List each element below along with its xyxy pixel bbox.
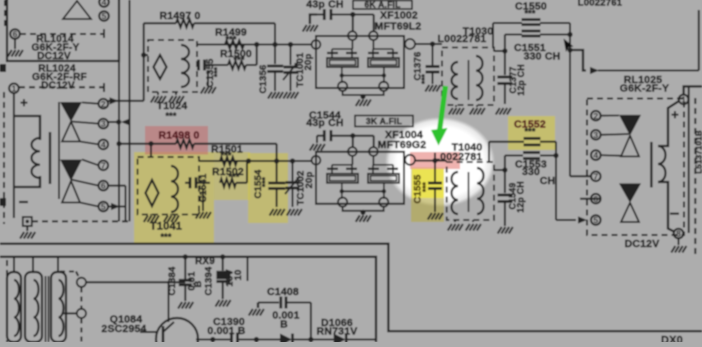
resistor R1501 [220, 157, 237, 165]
capacitor C1376 [426, 44, 440, 84]
transformer winding B (bottom left) [25, 272, 42, 342]
wire: emitter line to rail [196, 337, 230, 342]
relay RL1014 contact bowtie [63, 1, 91, 19]
wire: vertical bus x129.5 [129, 0, 131, 221]
transformer T1040 left winding [452, 172, 459, 214]
wire: pin7 to bowtie2 [82, 160, 99, 166]
transformer T1024 right winding [181, 45, 189, 87]
connector circle J1 [77, 278, 86, 287]
ground under T1024 a [151, 92, 166, 103]
label R1502 [212, 166, 244, 182]
relay RL1024 pin 5 [99, 202, 109, 212]
wire: riser into T1041 [150, 144, 152, 157]
relay RL1025 pin 8 [674, 229, 684, 239]
wire: pin5 feed arrow [556, 216, 587, 223]
ground under T1041 a [144, 214, 159, 222]
wire: J2 stub [63, 312, 77, 314]
svg-text:***: *** [233, 55, 244, 65]
transformer T1030 left winding [451, 62, 458, 99]
plus sign RL1025 [671, 107, 679, 122]
ground under C1555 [428, 213, 443, 220]
svg-text:7: 7 [101, 160, 106, 170]
svg-text:+: + [20, 95, 28, 110]
relay RL1014 label [31, 34, 79, 62]
svg-text:6K A.FIL: 6K A.FIL [364, 0, 400, 9]
transistor Q1084 [140, 281, 198, 347]
ground under T1040 a [448, 220, 463, 231]
wire: XF1002 out [415, 41, 443, 46]
label R1498 [158, 129, 199, 141]
highlight: yellow patch R1501/R1502 area [214, 152, 250, 200]
highlight: pink patch T1040 label [410, 152, 460, 169]
relay RL1014 pin 5 [99, 11, 109, 21]
resistor R1497 [144, 19, 275, 27]
capacitor C1390 [232, 333, 281, 347]
svg-text:3: 3 [101, 119, 106, 129]
wire: vertical x556 to pin5 [555, 142, 557, 220]
capacitor C1541 [185, 177, 210, 188]
svg-text:G6K-2F-Y: G6K-2F-Y [620, 83, 669, 95]
resistor R1500 [210, 61, 257, 69]
wire: y23 run [493, 22, 570, 24]
transformer T1024 left winding [154, 55, 167, 79]
capacitor C1552 [489, 138, 556, 145]
svg-text:DC12V: DC12V [625, 238, 660, 250]
ground under C1541 [196, 188, 211, 219]
svg-text:C1408: C1408 [267, 286, 299, 298]
wire: T1024 tap [141, 52, 148, 57]
highlight: yellow patch C1555 [411, 167, 444, 222]
svg-text:43p CH: 43p CH [306, 0, 343, 11]
capacitor 43p CH (upper) [316, 9, 353, 20]
wire: y34.5 run [505, 32, 573, 37]
svg-text:RX9: RX9 [195, 256, 215, 267]
mouse cursor mark [564, 39, 574, 53]
svg-text:B: B [193, 280, 204, 287]
relay RL1024 pin 3 [99, 119, 109, 129]
relay RL1025 pin 5 [591, 215, 601, 225]
svg-text:8: 8 [676, 229, 681, 239]
wire: coil top to pin1 [658, 101, 679, 146]
wire: pin5 to bowtie2 base [80, 203, 99, 207]
relay RL1025 shield box [587, 99, 684, 236]
relay RL1024 pin 4 [99, 139, 109, 149]
capacitor C1408 [258, 297, 311, 340]
svg-text:***: *** [261, 176, 270, 187]
highlight: white glow ellipse [385, 117, 495, 207]
ground under TC1001 [283, 92, 298, 99]
wire: pin3 junction [108, 118, 130, 125]
label R1501 [211, 144, 243, 161]
dashed border bottom left [6, 260, 8, 342]
label TC1001 [295, 52, 314, 88]
ground C1408 [249, 309, 264, 316]
wire: right border solid [688, 86, 690, 233]
wire: lower bus y161 [199, 160, 312, 162]
label DC12V [625, 238, 660, 250]
svg-text:5: 5 [102, 11, 107, 21]
wire: pin6 to bowtie2 apex [71, 180, 99, 186]
relay RL1025 pin 3 [591, 130, 601, 140]
capacitor C1550 [522, 20, 541, 25]
relay RL1025 pin 7 [591, 171, 601, 181]
label T1024 [157, 100, 188, 121]
wire: vertical bus x119 [118, 61, 120, 221]
label C1553 [515, 159, 555, 188]
label DX0 [661, 335, 683, 347]
relay RL1025 contact bowtie 1 [619, 115, 641, 156]
relay RL1024 pin 1 [9, 83, 19, 93]
diode D1066 [334, 334, 376, 346]
label T1040 part no [434, 151, 483, 163]
svg-text:***: *** [422, 181, 431, 192]
wire: T1040 out [494, 167, 508, 172]
highlight: yellow patch C1554/TC1002 area [248, 153, 288, 223]
label C1356 [258, 65, 269, 94]
ground under T1030 a [449, 105, 464, 115]
capacitor C1355 [197, 60, 210, 71]
connector stub left edge A [0, 64, 6, 72]
label T1040 [452, 142, 483, 154]
label D1066 [317, 317, 358, 338]
label R1499 [215, 27, 247, 45]
wire: bowtie common bar [58, 102, 60, 199]
label T1030 part no [438, 33, 487, 45]
wire: riser x489 into T1040 [488, 142, 490, 162]
wire: coil top [15, 116, 40, 140]
wire: dashed bottom run [32, 220, 130, 222]
wire: riser x504.9 [494, 35, 508, 76]
wire: riser x493 [492, 23, 494, 48]
label C1544 [306, 110, 343, 129]
label C1541 [198, 173, 209, 203]
highlight: red patch R1498 [145, 126, 208, 155]
svg-text:4: 4 [102, 0, 107, 7]
label TC1002 [296, 171, 316, 206]
dashed right border [694, 98, 696, 258]
label C1355 [205, 58, 222, 88]
wire: 43p to filter terminals [350, 12, 374, 32]
label R1497 [159, 10, 200, 22]
relay RL1025 contact bowtie 2 [619, 183, 641, 222]
transformer winding C (bottom left) [51, 272, 66, 342]
svg-text:MFT69G2: MFT69G2 [378, 139, 427, 151]
label C1377 [508, 64, 526, 96]
label 3K A.FIL box [355, 116, 413, 127]
wire: stub x247.5 [247, 258, 249, 281]
wire: riser x504.9 up [504, 156, 506, 171]
capacitor C1555 [428, 161, 442, 212]
transformer T1040 right winding [469, 168, 484, 214]
svg-text:2: 2 [593, 111, 598, 121]
label R1500 [220, 48, 252, 65]
relay RL1024 contact bowtie 1 [60, 102, 82, 142]
label MFT69L2 [375, 21, 422, 33]
ground under RL1014 pin6 [8, 50, 23, 57]
svg-text:330: 330 [522, 166, 540, 178]
arrow out of pin5 [108, 203, 126, 210]
svg-text:4: 4 [101, 139, 106, 149]
label XF1004 [385, 129, 423, 141]
ground under C1355 [201, 70, 216, 94]
relay RL1025 pin 1 [679, 94, 689, 104]
relay RL1014 pin 6 [10, 29, 20, 39]
dashed border top-left [4, 0, 6, 28]
relay RL1024 label [32, 64, 87, 92]
wire: 43p left stub to ground [310, 15, 317, 25]
svg-text:***: *** [160, 232, 171, 242]
label MFT69G2 [378, 139, 427, 151]
connector stub left edge B [0, 198, 6, 206]
resistor R1498 [116, 140, 276, 148]
crystal filter XF1004 (3K) [312, 147, 415, 222]
connector circle J2 [77, 309, 86, 318]
svg-text:RN731V: RN731V [317, 326, 358, 338]
relay RL1024 pin 6 [99, 181, 109, 191]
svg-text:12p CH: 12p CH [516, 64, 526, 96]
relay RL1014 enclosure box [7, 0, 119, 61]
minus sign RL1024 coil [19, 201, 28, 203]
transformer T1030 right winding [469, 56, 483, 100]
diode D1065 [280, 334, 314, 346]
svg-text:+: + [671, 107, 679, 122]
relay RL1025 coil [658, 146, 666, 182]
transformer core bottom left [46, 276, 49, 342]
svg-text:330 CH: 330 CH [524, 51, 561, 63]
wire: pin3 to bowtie1 apex [71, 122, 99, 124]
ground under T1040 b [466, 220, 481, 231]
label C1554 [253, 169, 270, 199]
wire: pin1 to right edge [684, 86, 702, 94]
plus sign RL1024 coil [20, 95, 28, 110]
capacitor C1384 [179, 254, 192, 301]
wire: J1 to C1384 [86, 281, 185, 283]
svg-text:C1394: C1394 [204, 266, 215, 296]
ground under C1549 [498, 227, 513, 234]
capacitor C1553 [505, 153, 559, 159]
capacitor C1544 [317, 130, 353, 141]
svg-text:1: 1 [12, 83, 17, 93]
ground under C1377 [496, 108, 511, 115]
svg-text:6: 6 [101, 181, 106, 191]
svg-text:L0022781: L0022781 [438, 33, 487, 45]
wire: dashed between J1 J2 [80, 288, 82, 343]
capacitor C1551 [522, 31, 541, 36]
svg-text:***: *** [228, 172, 239, 182]
svg-text:5: 5 [101, 202, 106, 212]
svg-text:DC12V: DC12V [37, 51, 71, 62]
relay RL1025 pin 6 [591, 194, 601, 204]
label C1390 [207, 316, 245, 337]
wire: pin7 link [570, 175, 591, 177]
wire: pin2 to bowtie1 [601, 115, 619, 117]
wire: dashed from pin1 [19, 83, 104, 92]
transformer T1041 left winding [146, 180, 159, 206]
svg-text:20p: 20p [303, 54, 314, 71]
wire: riser x698.8 [698, 10, 700, 71]
svg-text:12p CH: 12p CH [516, 181, 526, 213]
dashed border left [3, 92, 5, 224]
green arrow [431, 86, 448, 146]
label C1550 [515, 0, 547, 18]
svg-text:0.001 B: 0.001 B [207, 325, 245, 337]
resistor R1499 [225, 41, 244, 49]
wire: R1500 riser [254, 42, 259, 65]
label 43p CH (upper) [306, 0, 343, 11]
node symbol bottom-left (boxed dot) [23, 217, 32, 226]
transformer T1024 shield box [148, 40, 197, 92]
relay RL1025 pin 4 [591, 150, 601, 160]
label RX9 [195, 256, 215, 267]
label C1384 [167, 266, 204, 296]
ground under C1394 [216, 300, 231, 307]
relay RL1024 coil [31, 132, 50, 184]
svg-text:6: 6 [13, 29, 18, 39]
label C1408 [267, 286, 300, 331]
wire: pin6 stub [580, 198, 601, 200]
svg-text:***: *** [524, 127, 535, 137]
wire: pin6 to ground [14, 39, 16, 49]
label Q1084 [101, 314, 146, 336]
svg-text:4: 4 [593, 150, 598, 160]
svg-text:R1498 0: R1498 0 [158, 129, 199, 141]
label C1376 [413, 52, 430, 84]
label C1551 [514, 42, 560, 63]
svg-text:***: *** [421, 73, 430, 84]
label T1030 [463, 26, 494, 38]
transformer T1030 shield box [442, 48, 494, 106]
svg-text:L5137101B: L5137101B [695, 130, 702, 174]
wire: vertical bus x125.5 [125, 186, 127, 222]
wire: R1498 drop to bus [274, 144, 279, 164]
ground under C1356 [268, 92, 283, 99]
wire: XF1004 out [415, 158, 447, 163]
svg-text:***: *** [524, 9, 535, 19]
relay RL1014 pin 4 [99, 0, 109, 7]
capacitor C1394 electrolytic [216, 254, 230, 299]
transformer T1041 right winding [171, 166, 178, 212]
section boundary outer [0, 244, 702, 331]
relay RL1024 pin 7 [99, 160, 109, 170]
svg-text:***: *** [165, 111, 176, 121]
transformer T1040 shield box [447, 162, 494, 220]
ground C1544 [310, 144, 325, 151]
relay RL1024 pin 2 [99, 99, 109, 109]
svg-text:5: 5 [593, 215, 598, 225]
svg-text:43p CH: 43p CH [306, 117, 343, 129]
ground under C1384 [178, 302, 193, 309]
section boundary inner / supply rail [0, 257, 376, 342]
capacitor C1356 [267, 45, 283, 92]
svg-text:3: 3 [593, 130, 598, 140]
wire: pin1 rail down [13, 93, 15, 218]
wire: pin6 stub [108, 185, 126, 187]
wire: vertical x570 to RL1025 pin7 [567, 23, 572, 176]
svg-text:DX0: DX0 [661, 335, 683, 343]
ground under T1024 b [169, 92, 184, 103]
svg-text:B: B [280, 319, 288, 331]
ground under node [20, 226, 35, 239]
wire: feed to RL1025 [570, 50, 699, 74]
capacitor C1554 [268, 161, 285, 207]
label C1555 [413, 174, 431, 204]
ground under TC1002 [287, 209, 302, 216]
label L0022761 [578, 0, 623, 9]
ground under C1554 [270, 209, 285, 216]
highlight: yellow patch C1552 [508, 116, 555, 150]
ground under RL1025 pin8 [671, 238, 686, 252]
svg-text:20p: 20p [304, 172, 315, 189]
resistor R1502 [220, 179, 247, 187]
wire: D1066 run [311, 339, 334, 341]
wire: upper bus y44.5 [197, 44, 312, 46]
vertical part number right edge [695, 130, 702, 174]
svg-text:***: *** [220, 151, 231, 161]
svg-text:2SC2954: 2SC2954 [101, 323, 146, 335]
relay RL1025 coil core [650, 142, 652, 188]
wire: pin3 to bowtie1 apex [601, 133, 629, 136]
capacitor C1549 [498, 170, 513, 226]
ground under T1030 b [470, 105, 485, 115]
svg-text:C1356: C1356 [258, 65, 269, 94]
svg-text:R1497 0: R1497 0 [159, 10, 200, 22]
minus sign RL1025 [670, 213, 679, 215]
highlight: yellow patch T1041 area [134, 152, 214, 243]
wire: C1544 left stub to ground [316, 136, 318, 143]
crystal filter XF1002 (6K) [312, 31, 415, 106]
svg-text:DC12V: DC12V [41, 81, 75, 92]
capacitor C1377 [497, 77, 512, 104]
label C1394 [204, 266, 245, 296]
svg-text:MFT69L2: MFT69L2 [375, 21, 422, 33]
svg-text:***: *** [213, 66, 222, 77]
svg-text:1: 1 [681, 94, 686, 104]
relay RL1025 pin 2 [591, 111, 601, 121]
wire: pin4 to bowtie1 base [601, 154, 622, 157]
svg-text:7: 7 [593, 171, 598, 181]
wire: R1497 drop to bus [272, 23, 277, 47]
svg-text:3K A.FIL: 3K A.FIL [366, 116, 402, 126]
label C1552 [514, 119, 546, 137]
wire: rail stubs to windings [14, 257, 58, 272]
wire: R1502 riser [246, 158, 251, 182]
wire: dashed from pin6 [20, 29, 104, 38]
trimmer TC1002 [285, 158, 300, 207]
ground under T1041 b [164, 214, 179, 222]
svg-text:T1041: T1041 [150, 221, 182, 233]
arrow out of pin2 [108, 97, 144, 104]
transformer winding A (bottom left) [7, 272, 21, 342]
svg-text:L0022761: L0022761 [578, 0, 623, 9]
relay RL1024 contact bowtie 2 [60, 160, 82, 203]
wire: riser x143.7 (pin2 to R1497) [143, 23, 145, 101]
label 6K A.FIL box [353, 0, 412, 9]
wire: pin2 to bowtie1 [82, 103, 99, 104]
ground 43p (upper) [303, 25, 318, 32]
wire: pin4 to bowtie1 base [80, 142, 99, 145]
wire: coil bottom to pin8 [658, 182, 674, 232]
ground under C1376 [425, 85, 440, 92]
label RL1025 [620, 74, 669, 95]
svg-text:***: *** [225, 35, 236, 45]
trimmer TC1001 [283, 42, 298, 91]
label XF1002 [380, 10, 418, 22]
wire: C1544 to filter terminals [350, 133, 374, 147]
label T1041 [150, 221, 182, 243]
transformer T1041 shield box [138, 157, 199, 215]
svg-text:10: 10 [233, 270, 244, 281]
svg-text:2: 2 [101, 99, 106, 109]
